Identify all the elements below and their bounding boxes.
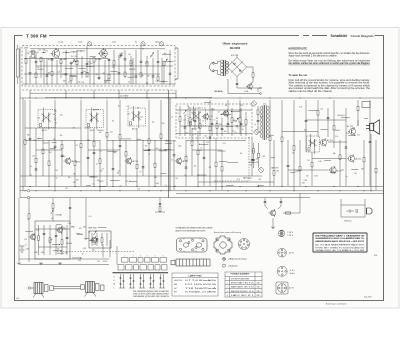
svg-text:0,1: 0,1 bbox=[309, 142, 311, 144]
capacitor C71 bbox=[173, 155, 176, 156]
thick center feed bbox=[168, 90, 170, 198]
border frame bbox=[15, 36, 384, 301]
wire bbox=[89, 240, 98, 242]
svg-text:LW: LW bbox=[35, 252, 38, 254]
resistor R74 bbox=[197, 150, 199, 154]
svg-text:41 75: 41 75 bbox=[289, 252, 294, 254]
AF driver stage box bbox=[35, 221, 70, 259]
wire bbox=[18, 221, 20, 262]
svg-text:NG 8000: NG 8000 bbox=[230, 46, 241, 50]
junction bbox=[293, 190, 294, 191]
wire bbox=[244, 177, 251, 179]
junction bbox=[329, 97, 330, 98]
svg-text:41 76: 41 76 bbox=[289, 288, 294, 290]
svg-text:330: 330 bbox=[276, 171, 279, 173]
wire bbox=[137, 138, 142, 140]
svg-text:100: 100 bbox=[137, 107, 140, 109]
wire bbox=[154, 140, 156, 186]
wire bbox=[226, 184, 234, 186]
wire bbox=[104, 60, 106, 84]
junction bbox=[226, 126, 227, 127]
wire bbox=[328, 141, 347, 143]
svg-text:AC 153: AC 153 bbox=[347, 125, 353, 128]
junction bbox=[257, 186, 258, 187]
junction bbox=[227, 190, 228, 191]
wire bbox=[35, 228, 70, 230]
variable capacitor C1 bbox=[71, 60, 74, 65]
svg-text:500: 500 bbox=[119, 56, 122, 58]
variable capacitor C5 bbox=[184, 110, 187, 114]
wire bbox=[61, 140, 63, 176]
svg-text:T18 100/25mA: T18 100/25mA bbox=[185, 287, 218, 290]
svg-text:1,2k: 1,2k bbox=[199, 150, 202, 152]
svg-text:12V: 12V bbox=[54, 111, 57, 113]
wire bbox=[293, 100, 295, 190]
svg-text:330: 330 bbox=[60, 135, 63, 137]
junction bbox=[146, 97, 147, 98]
svg-text:470: 470 bbox=[96, 241, 99, 243]
svg-text:LW: LW bbox=[174, 288, 177, 290]
junction bbox=[118, 97, 119, 98]
junction bbox=[154, 186, 155, 187]
pcb hole 1 bbox=[179, 240, 181, 242]
svg-text:40n: 40n bbox=[90, 63, 93, 65]
wire bbox=[38, 225, 40, 255]
wire bbox=[38, 138, 42, 140]
capacitor C104 bbox=[305, 120, 308, 121]
wire bbox=[251, 138, 253, 176]
svg-text:0,1: 0,1 bbox=[100, 151, 102, 153]
switch cell A1 bbox=[122, 258, 129, 263]
connector B1 bbox=[278, 230, 285, 237]
junction bbox=[197, 186, 198, 187]
junction bbox=[80, 50, 81, 51]
capacitor C28 bbox=[70, 62, 73, 63]
svg-text:5k: 5k bbox=[56, 177, 58, 179]
IFT4 bbox=[188, 106, 206, 128]
wire bbox=[61, 225, 63, 255]
resistor R9 bbox=[70, 76, 72, 80]
lamp table frame bbox=[172, 273, 218, 296]
svg-text:3 LR 6: 3 LR 6 bbox=[287, 235, 293, 237]
svg-text:1,2k: 1,2k bbox=[210, 116, 213, 118]
svg-text:DIE VERBINDUNGEN DER SCHALTER: DIE VERBINDUNGEN DER SCHALTER bbox=[133, 290, 170, 293]
svg-text:5k: 5k bbox=[184, 175, 186, 177]
svg-text:2k2: 2k2 bbox=[320, 109, 323, 111]
wire bbox=[84, 238, 89, 240]
svg-text:6,8k: 6,8k bbox=[92, 250, 95, 252]
svg-text:68p: 68p bbox=[83, 227, 86, 229]
ground bbox=[58, 263, 62, 265]
resistor R30 bbox=[179, 117, 181, 121]
wire bbox=[198, 174, 206, 176]
svg-text:·: · bbox=[348, 34, 349, 38]
wire bbox=[221, 118, 223, 136]
svg-text:8,2: 8,2 bbox=[112, 120, 114, 122]
junction bbox=[175, 97, 176, 98]
rail connector node bbox=[27, 190, 29, 192]
wire bbox=[29, 51, 37, 53]
svg-text:6,8k: 6,8k bbox=[361, 168, 364, 170]
junction bbox=[169, 61, 170, 62]
resistor R54 bbox=[48, 161, 50, 165]
wire bbox=[106, 100, 108, 186]
svg-text:1n: 1n bbox=[214, 120, 216, 122]
wire to switch bbox=[116, 246, 118, 265]
wire bbox=[96, 233, 98, 246]
wire FM top bus bbox=[30, 48, 165, 50]
junction bbox=[173, 186, 174, 187]
svg-text:6p: 6p bbox=[135, 42, 137, 44]
svg-text:470: 470 bbox=[79, 228, 82, 230]
svg-text:22k: 22k bbox=[78, 81, 81, 83]
junction bbox=[107, 80, 108, 81]
elements table bbox=[225, 272, 262, 297]
capacitor C25 bbox=[51, 59, 54, 60]
svg-text:3,3k: 3,3k bbox=[335, 136, 338, 138]
svg-text:2k2: 2k2 bbox=[65, 188, 68, 190]
wire bbox=[184, 115, 186, 136]
switch bar bbox=[113, 272, 169, 274]
transistor T8 driver bbox=[319, 138, 327, 147]
svg-text:First pull off the record knob: First pull off the record knobs for volu… bbox=[289, 79, 371, 82]
junction bbox=[136, 186, 137, 187]
wire bbox=[119, 100, 121, 176]
wire bbox=[173, 140, 175, 190]
wire bbox=[50, 148, 55, 150]
wire bbox=[99, 180, 104, 182]
capacitor C26 bbox=[118, 73, 121, 74]
svg-text:-9V: -9V bbox=[225, 105, 227, 107]
wire bbox=[45, 97, 212, 99]
resistor R160 bbox=[159, 207, 161, 211]
svg-text:3n: 3n bbox=[242, 129, 244, 131]
wire bbox=[199, 120, 201, 136]
svg-text:0,1: 0,1 bbox=[86, 71, 88, 73]
svg-text:3n: 3n bbox=[82, 253, 84, 255]
wire bbox=[102, 260, 107, 262]
svg-text:330: 330 bbox=[76, 179, 79, 181]
svg-text:25k: 25k bbox=[75, 56, 78, 58]
capacitor C80 bbox=[93, 152, 96, 153]
resistor R117 bbox=[215, 162, 217, 166]
wire bbox=[269, 134, 274, 136]
potentiometer tone bbox=[94, 231, 97, 235]
underline rule bbox=[289, 64, 371, 66]
wire bbox=[146, 90, 148, 98]
svg-text:470: 470 bbox=[263, 103, 266, 105]
junction bbox=[199, 144, 200, 145]
wire bbox=[231, 108, 233, 136]
transistor T5 IF1 bbox=[64, 157, 71, 165]
pcb hole 7 bbox=[188, 241, 190, 243]
junction bbox=[209, 97, 210, 98]
capacitor C176 bbox=[96, 238, 99, 239]
wire bbox=[227, 161, 238, 163]
svg-text:0,25: 0,25 bbox=[126, 106, 129, 108]
capacitor C22 bbox=[35, 62, 38, 63]
junction bbox=[258, 185, 259, 186]
wire bbox=[97, 129, 103, 131]
wire feed bbox=[18, 198, 20, 221]
svg-text:0,1: 0,1 bbox=[165, 185, 167, 187]
junction bbox=[99, 186, 100, 187]
junction bbox=[359, 97, 360, 98]
capacitor C31 bbox=[86, 64, 89, 65]
svg-text:2x12p: 2x12p bbox=[78, 42, 82, 44]
dashed LW rail bbox=[57, 250, 135, 252]
resistor R19 bbox=[130, 61, 132, 65]
wire bbox=[81, 56, 83, 78]
capacitor C113 bbox=[369, 141, 372, 142]
svg-text:2k2: 2k2 bbox=[307, 160, 310, 162]
svg-text:4/64: 4/64 bbox=[16, 298, 19, 300]
svg-text:100: 100 bbox=[32, 155, 35, 157]
wire bbox=[357, 100, 359, 126]
pcb hole 5 bbox=[192, 239, 194, 241]
tube socket view S1 bbox=[238, 238, 249, 249]
svg-text:330: 330 bbox=[212, 109, 215, 111]
resistor R112 bbox=[363, 158, 365, 162]
junction bbox=[317, 190, 318, 191]
svg-text:2k2: 2k2 bbox=[103, 73, 106, 75]
svg-text:UM 1: UM 1 bbox=[257, 283, 261, 285]
bus wire bbox=[20, 190, 384, 192]
svg-text:8,2: 8,2 bbox=[199, 112, 201, 114]
svg-text:0,1: 0,1 bbox=[146, 83, 148, 85]
svg-text:8,2: 8,2 bbox=[93, 238, 95, 240]
svg-text:3: 3 bbox=[227, 291, 228, 293]
diode D2 bbox=[254, 129, 260, 135]
wire bbox=[24, 58, 108, 60]
mains transformer TR1 bbox=[218, 60, 229, 76]
resistor R104 bbox=[257, 110, 259, 114]
resistor R109 bbox=[154, 163, 156, 167]
bridge rectifier GR1 bbox=[227, 55, 247, 81]
connector B4 box bbox=[276, 282, 288, 294]
switch cell B1 bbox=[118, 265, 124, 270]
wire bbox=[75, 161, 80, 163]
resistor R106 bbox=[317, 111, 319, 115]
wire bbox=[77, 233, 82, 235]
wire bbox=[160, 100, 162, 186]
resistor R174 bbox=[61, 240, 63, 244]
IFT2 bbox=[86, 108, 104, 130]
svg-text:SCHRAUBEN ZUR BEFESTIGUNG DES: SCHRAUBEN ZUR BEFESTIGUNG DES CHASSIS bbox=[176, 227, 214, 230]
transistor T4 AM osc bbox=[222, 110, 229, 118]
junction bbox=[48, 186, 49, 187]
wire bbox=[375, 140, 377, 190]
junction bbox=[93, 109, 94, 110]
wire to switch bbox=[102, 244, 104, 258]
wire bbox=[312, 158, 346, 160]
svg-text:6,8k: 6,8k bbox=[299, 106, 302, 108]
wire bbox=[55, 214, 61, 216]
coil L2 bbox=[31, 54, 35, 58]
wire bbox=[198, 181, 274, 183]
svg-text:D 1h •: D 1h • bbox=[290, 270, 296, 272]
junction bbox=[363, 190, 364, 191]
resistor R62 bbox=[106, 133, 108, 137]
wire bbox=[62, 52, 70, 54]
wire bbox=[99, 140, 101, 190]
wire bbox=[132, 58, 134, 84]
wire bbox=[42, 128, 44, 176]
switch cell A4 bbox=[145, 258, 151, 263]
svg-text:3,3k: 3,3k bbox=[219, 124, 222, 126]
capacitor C110 bbox=[345, 147, 348, 148]
junction bbox=[118, 83, 119, 84]
pcb hole big left bbox=[183, 243, 188, 247]
wire bbox=[308, 109, 317, 111]
wire bbox=[253, 143, 255, 168]
switch stack 1 bbox=[119, 274, 125, 288]
svg-text:Ansicht von unten auf Fassung: Ansicht von unten auf Fassung bbox=[214, 231, 241, 234]
junction bbox=[80, 97, 81, 98]
svg-text:470: 470 bbox=[45, 50, 48, 52]
wire bbox=[77, 50, 85, 52]
capacitor C20 bbox=[81, 73, 84, 74]
resistor R125 bbox=[269, 136, 271, 140]
ground bbox=[39, 263, 43, 265]
capacitor C160 bbox=[159, 203, 162, 204]
wire bbox=[25, 127, 81, 129]
wire bbox=[71, 51, 77, 53]
wire bbox=[337, 114, 345, 116]
transistor T2 FM mixer bbox=[98, 49, 107, 59]
wire bbox=[66, 242, 72, 244]
wire bbox=[93, 128, 95, 186]
svg-text:After removal of the two screw: After removal of the two screws, it is p… bbox=[289, 82, 371, 85]
wire bbox=[203, 140, 205, 186]
wire bbox=[54, 100, 56, 190]
capacitor C34 bbox=[108, 59, 111, 60]
junction bbox=[46, 83, 47, 84]
resistor R10 bbox=[76, 60, 78, 64]
svg-text:68p: 68p bbox=[113, 152, 116, 154]
svg-text:MW: MW bbox=[71, 227, 75, 229]
wire bbox=[215, 140, 217, 190]
svg-text:22k: 22k bbox=[112, 67, 115, 69]
junction bbox=[163, 81, 164, 82]
wire bbox=[110, 70, 117, 72]
capacitor C29 bbox=[135, 76, 138, 77]
svg-text:6,8k: 6,8k bbox=[154, 177, 157, 179]
svg-text:15k: 15k bbox=[183, 119, 186, 121]
junction bbox=[81, 234, 82, 235]
junction bbox=[243, 177, 244, 178]
svg-text:4,7u: 4,7u bbox=[223, 143, 226, 145]
svg-text:7k5: 7k5 bbox=[55, 170, 58, 172]
svg-text:25k: 25k bbox=[57, 249, 60, 251]
svg-text:2k2: 2k2 bbox=[263, 156, 266, 158]
junction bbox=[169, 83, 170, 84]
switch cell B5 bbox=[148, 265, 154, 270]
wire bbox=[93, 58, 95, 84]
resistor R88 bbox=[148, 139, 150, 143]
resistor R80 bbox=[93, 142, 95, 146]
wire bbox=[159, 80, 167, 82]
svg-text:6,8k: 6,8k bbox=[318, 161, 321, 163]
svg-text:VTVM; SET TUNED TO 1000 kHz AN: VTVM; SET TUNED TO 1000 kHz AND NO bbox=[315, 246, 365, 249]
wire bbox=[88, 149, 120, 151]
connector B3 bbox=[277, 266, 287, 276]
wire bbox=[89, 56, 95, 58]
svg-text:2x6p: 2x6p bbox=[104, 81, 107, 83]
svg-text:2k2: 2k2 bbox=[51, 54, 54, 56]
svg-text:ÄNDERUNGEN NACH DIN 45 500 + G: ÄNDERUNGEN NACH DIN 45 500 + GEZ.XX/YY bbox=[315, 240, 365, 243]
wire bbox=[66, 225, 68, 255]
capacitor C101 bbox=[287, 165, 290, 166]
svg-text:100: 100 bbox=[256, 162, 259, 164]
capacitor C31 bbox=[184, 127, 187, 128]
svg-text:7k5: 7k5 bbox=[71, 56, 74, 58]
earphone circuit bbox=[341, 199, 365, 217]
wire bbox=[165, 149, 171, 151]
wire bbox=[37, 68, 43, 70]
wire bbox=[240, 108, 242, 136]
wire bbox=[76, 233, 80, 235]
wire bbox=[43, 142, 48, 144]
wire bbox=[42, 51, 46, 53]
wire bbox=[159, 198, 161, 212]
wire bbox=[345, 108, 347, 186]
svg-text:mat 4 30: mat 4 30 bbox=[364, 296, 371, 299]
wire bbox=[227, 125, 234, 127]
svg-text:UKW 2102: UKW 2102 bbox=[174, 280, 182, 282]
junction bbox=[29, 186, 30, 187]
wire bbox=[86, 185, 91, 187]
wire bbox=[56, 223, 62, 225]
junction bbox=[106, 97, 107, 98]
pcb hole big right bbox=[196, 243, 201, 247]
wire bbox=[221, 150, 223, 190]
svg-text:2: 2 bbox=[227, 287, 228, 289]
svg-text:5k: 5k bbox=[37, 52, 39, 54]
svg-text:2x6p: 2x6p bbox=[178, 145, 181, 147]
capacitor C178 bbox=[69, 207, 72, 208]
junction bbox=[54, 190, 55, 191]
capacitor C43 bbox=[157, 62, 160, 63]
capacitor C150 bbox=[264, 201, 267, 202]
wire bbox=[98, 58, 100, 80]
wire bbox=[106, 233, 108, 246]
dial cord legs bbox=[33, 293, 96, 298]
svg-text:8,2: 8,2 bbox=[54, 119, 56, 121]
junction bbox=[166, 140, 167, 141]
junction bbox=[146, 83, 147, 84]
svg-text:3n: 3n bbox=[194, 134, 196, 136]
wire bbox=[29, 56, 31, 84]
svg-text:15k: 15k bbox=[100, 170, 103, 172]
wire bbox=[87, 128, 89, 176]
svg-text:Schaltbild: Schaltbild bbox=[331, 34, 347, 38]
transistor T15 bbox=[90, 236, 97, 244]
ground bbox=[17, 263, 21, 265]
svg-text:MW+KW: MW+KW bbox=[89, 228, 97, 230]
transistor T ps regulator bbox=[246, 83, 252, 90]
svg-text:1n: 1n bbox=[25, 244, 27, 246]
wire bbox=[299, 193, 301, 213]
wire bbox=[305, 100, 307, 152]
svg-text:5k: 5k bbox=[224, 110, 226, 112]
resistor R176 bbox=[101, 238, 103, 242]
wire bbox=[327, 108, 329, 137]
svg-text:100: 100 bbox=[127, 114, 130, 116]
junction bbox=[185, 97, 186, 98]
wire bbox=[192, 149, 222, 151]
resistor R122 bbox=[293, 146, 295, 150]
